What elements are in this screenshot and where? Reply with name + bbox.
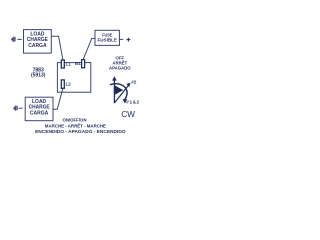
wire terminal B1 to fuse <box>83 38 95 59</box>
relay module 7883 (5913) <box>57 63 90 93</box>
svg-text:B1: B1 <box>75 61 81 66</box>
svg-text:#1&2: #1&2 <box>126 100 139 105</box>
rotary switch knob pennant <box>115 85 123 94</box>
terminal L1 <box>61 60 64 68</box>
svg-text:L2: L2 <box>66 81 72 86</box>
wire stub to bottom load box <box>19 107 23 109</box>
wire load box to terminal L1 <box>51 36 63 60</box>
load speaker symbol top <box>11 36 16 42</box>
terminal L2 <box>61 80 64 88</box>
svg-text:CW: CW <box>121 109 135 119</box>
svg-text:ENCENDIDO - APAGADO - ENCENDID: ENCENDIDO - APAGADO - ENCENDIDO <box>35 129 126 134</box>
part number label 7883 (5913) <box>31 67 46 78</box>
clockwise rotation arc <box>110 84 127 100</box>
svg-text:L1: L1 <box>66 62 72 67</box>
svg-text:(5913): (5913) <box>31 72 46 78</box>
switch position label OFF/ARRET/APAGADO <box>109 55 131 70</box>
load box bottom (LOAD/CHARGE/CARGA) <box>25 97 53 121</box>
svg-text:ON/OFF/ON: ON/OFF/ON <box>63 118 87 123</box>
svg-text:FUSE: FUSE <box>102 32 112 37</box>
svg-text:FUSIBLE: FUSIBLE <box>98 38 117 43</box>
svg-text:CARGA: CARGA <box>28 43 47 49</box>
wire stub fuse to battery positive <box>119 38 123 40</box>
rotary switch pointer arrow (OFF position, up) <box>112 76 117 103</box>
battery positive symbol + <box>127 38 131 42</box>
svg-text:APAGADO: APAGADO <box>109 65 131 70</box>
load speaker symbol bottom <box>13 105 18 111</box>
arrow to position #2 <box>115 83 131 103</box>
wire bottom load box to terminal L2 <box>53 88 63 109</box>
svg-text:CARGA: CARGA <box>30 110 49 116</box>
fuse box (FUSE/FUSIBLE) <box>95 30 119 45</box>
wire stub to top load box <box>17 38 21 40</box>
arc arrowhead (down to #1&2) <box>123 99 128 104</box>
svg-text:MARCHE - ARRÊT - MARCHE: MARCHE - ARRÊT - MARCHE <box>45 121 106 128</box>
svg-text:#2: #2 <box>131 80 137 85</box>
terminal B1 <box>82 60 85 68</box>
load box top (LOAD/CHARGE/CARGA) <box>24 30 52 53</box>
